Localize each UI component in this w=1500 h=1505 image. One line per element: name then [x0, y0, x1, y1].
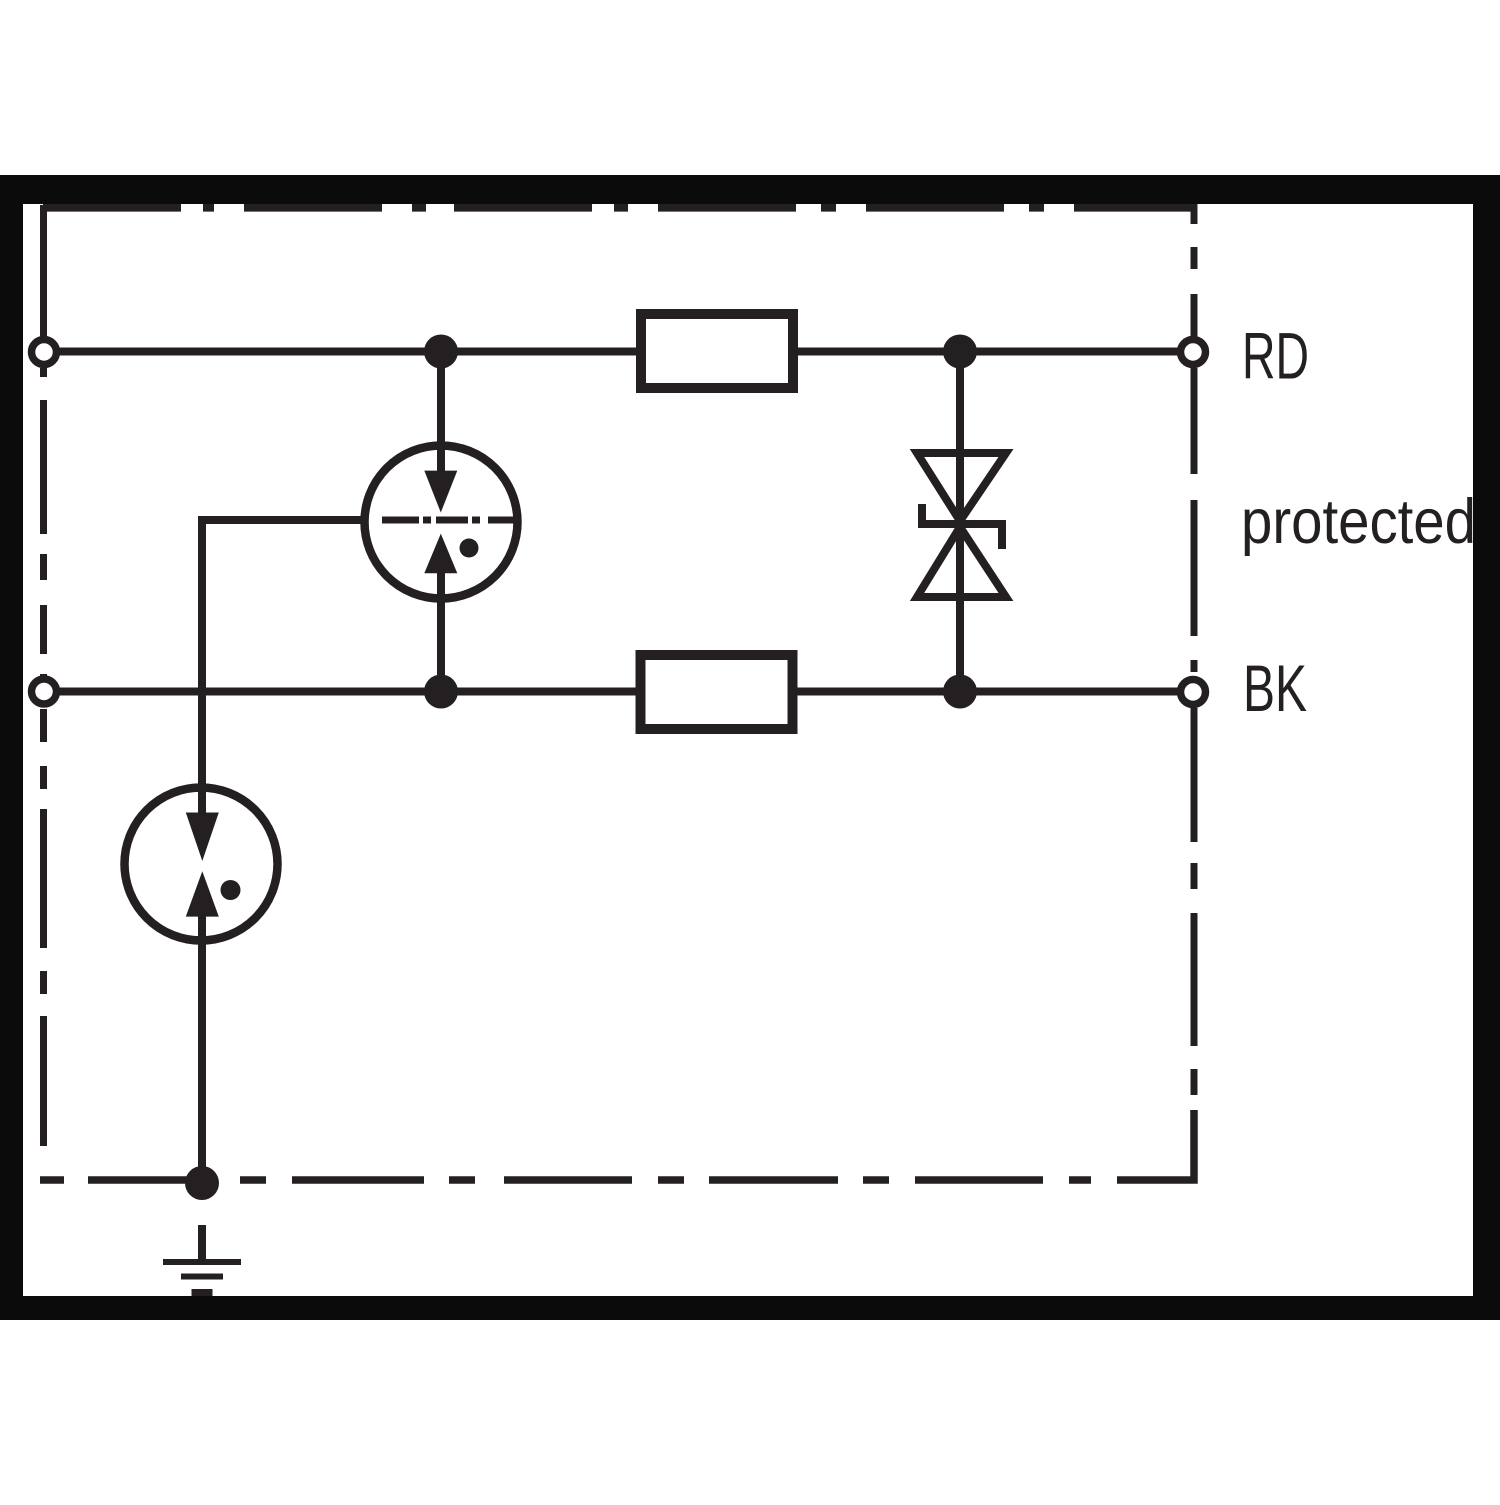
suppressor diode V1: [917, 453, 1006, 597]
F2 lower arrow: [186, 871, 219, 916]
resistor R2: [641, 655, 793, 729]
V1 zener bar: [922, 504, 1002, 549]
F2 wire stem bottom: [198, 910, 206, 944]
terminal left BK: [32, 679, 57, 704]
zone boundary top dash-dot line: [43, 204, 1194, 212]
gas discharge tube F1: [365, 443, 518, 602]
svg-text:RD: RD: [1242, 319, 1309, 393]
terminal right RD: [1181, 340, 1206, 365]
F2 wire stem top: [198, 786, 206, 835]
wire RD line: [44, 348, 1193, 356]
svg-text:BK: BK: [1243, 651, 1307, 725]
zone boundary left dash-dot line: [40, 205, 47, 337]
V1 lower triangle: [917, 527, 1006, 597]
wire from GDT F2 down to earth node: [198, 871, 206, 1183]
F2 upper arrow: [186, 813, 219, 862]
zone boundary right dash-dot line: [1191, 204, 1198, 337]
junction dot RD-F1: [424, 335, 458, 369]
resistor R1: [641, 314, 793, 388]
F1 lower arrow: [424, 534, 457, 574]
wire BK line: [44, 688, 1193, 696]
terminal left RD: [32, 340, 57, 365]
junction dot earth node: [185, 1166, 219, 1200]
svg-text:protected: protected: [1241, 487, 1476, 557]
junction dot RD-V1: [943, 335, 977, 369]
border frame: [0, 175, 1500, 1320]
zone boundary bottom dash-dot line: [40, 1176, 1117, 1184]
ground: [163, 1225, 241, 1293]
F1 wire stem bottom: [437, 566, 445, 602]
V1 upper triangle: [917, 453, 1006, 521]
wire from GDT F1 down to BK junction: [437, 534, 445, 692]
wire TVS diode branch: [956, 352, 964, 692]
F1 trigger dot: [460, 539, 479, 558]
F1 wire stem top: [437, 443, 445, 485]
terminal right BK: [1181, 680, 1206, 705]
F2 trigger dot: [221, 880, 241, 900]
F1 electrode dash-dot midline: [382, 517, 515, 524]
gas discharge tube F2: [125, 786, 278, 944]
junction dot BK-F1: [424, 675, 458, 709]
wire from GDT F1 electrode left and down to GDT F2: [202, 520, 365, 861]
junction dot BK-V1: [943, 675, 977, 709]
wire from RD junction down into GDT F1: [437, 352, 445, 513]
F1 upper arrow: [424, 471, 457, 513]
